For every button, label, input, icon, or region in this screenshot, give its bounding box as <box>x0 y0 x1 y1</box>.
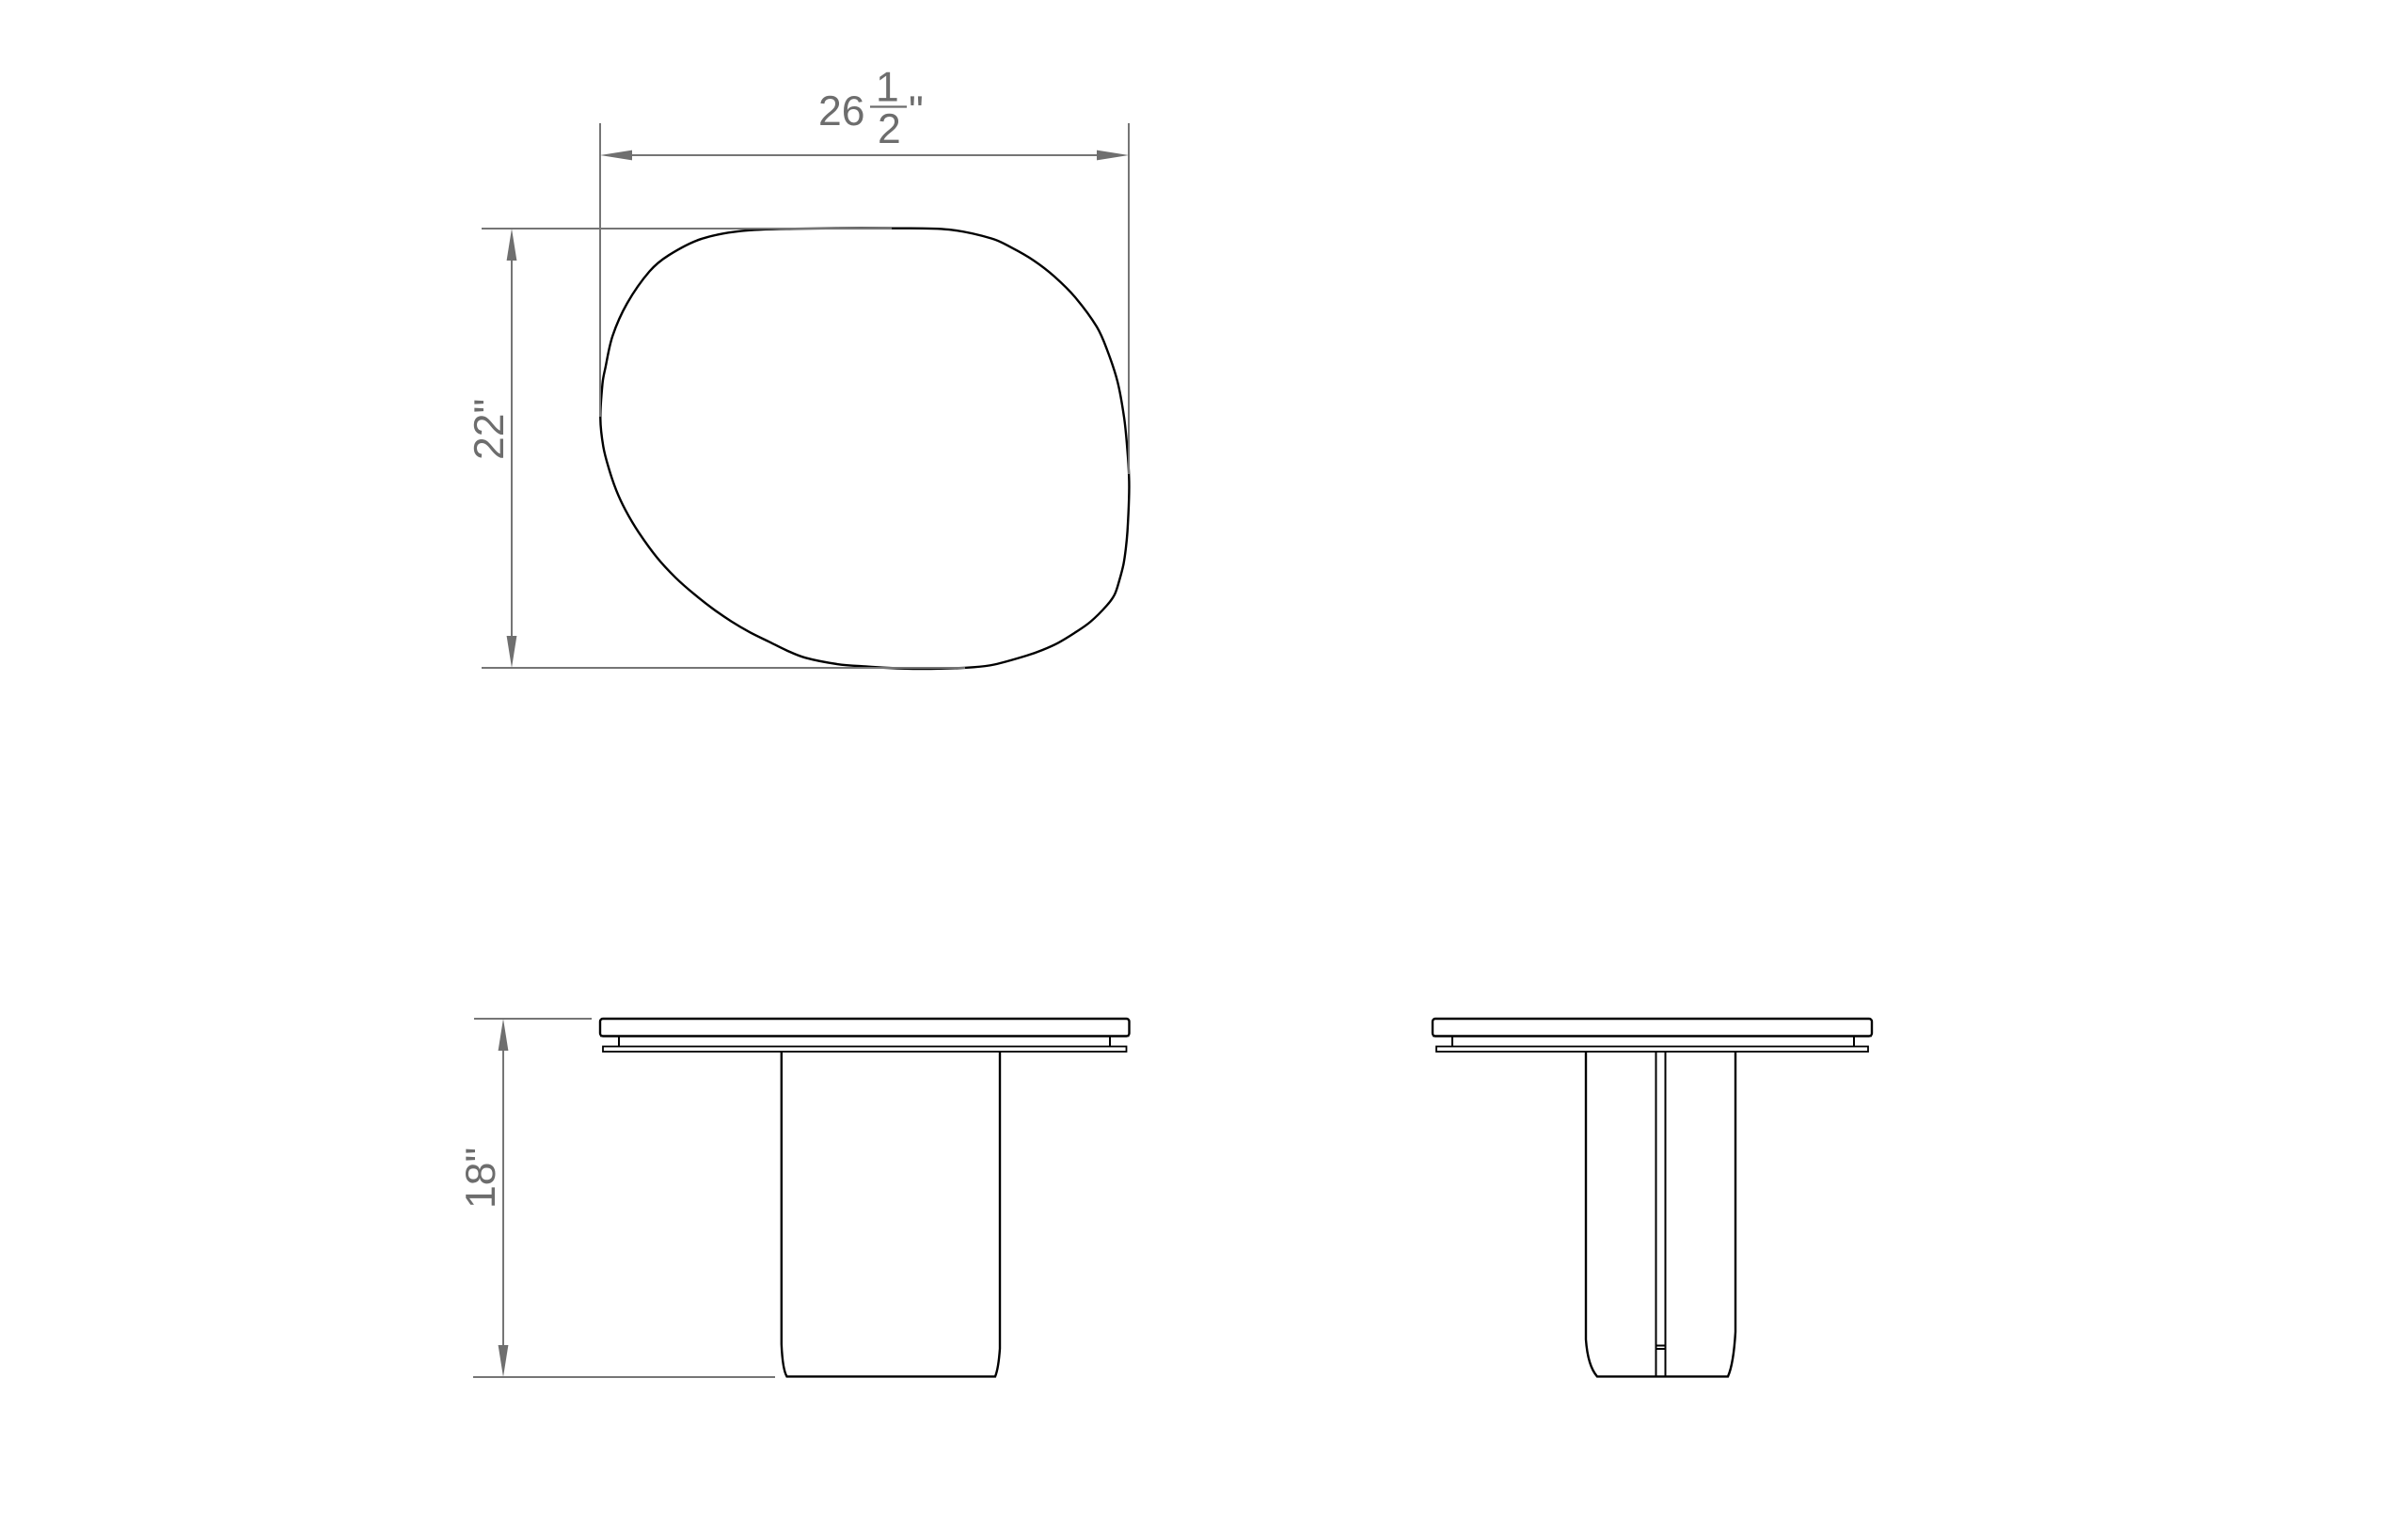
dimension 22" : dimension line <box>511 261 513 636</box>
dimension 22" : bottom arrowhead <box>507 636 517 668</box>
side view pedestal seam upper tick <box>1656 1345 1666 1347</box>
dimension 26 1/2" : right extension line <box>1128 123 1130 474</box>
dimension 22" : top extension line <box>482 228 892 230</box>
svg-text:26: 26 <box>818 88 865 135</box>
dimension 18" : dimension line <box>502 1051 504 1345</box>
side view right support tick <box>1853 1037 1855 1048</box>
dimension 22" : top arrowhead <box>507 229 517 261</box>
side view pedestal outline <box>1586 1052 1735 1376</box>
side view pedestal center seam right line <box>1665 1052 1667 1376</box>
front view left support tick <box>618 1037 620 1048</box>
side view pedestal center seam left line <box>1655 1052 1657 1376</box>
front view pedestal <box>782 1052 1000 1376</box>
front view sub-top plate <box>603 1047 1127 1053</box>
svg-text:18": 18" <box>458 1148 504 1209</box>
dimension 18" : top arrowhead <box>499 1019 509 1051</box>
dimension 26 1/2" : left extension line <box>599 123 601 417</box>
side view tabletop slab <box>1433 1019 1872 1037</box>
svg-text:1: 1 <box>876 65 899 111</box>
dimension 18" : top extension line <box>474 1018 592 1020</box>
front view right support tick <box>1109 1037 1111 1048</box>
side view sub-top plate <box>1436 1047 1868 1053</box>
dimension 26 1/2" : dimension line <box>632 154 1097 156</box>
svg-text:22": 22" <box>467 399 513 460</box>
front view tabletop slab <box>600 1019 1130 1037</box>
dimension 18" : bottom extension line <box>473 1376 775 1378</box>
fraction bar <box>870 105 907 107</box>
side view left support tick <box>1451 1037 1453 1048</box>
dimension 18" : bottom arrowhead <box>499 1345 509 1377</box>
dimension 26 1/2" : left arrowhead <box>600 151 632 161</box>
front view slab bottom edge emphasis <box>600 1036 1130 1038</box>
dimension 26 1/2" : right arrowhead <box>1097 151 1129 161</box>
svg-text:": " <box>909 88 924 135</box>
side view slab bottom edge emphasis <box>1433 1036 1872 1038</box>
svg-text:2: 2 <box>878 106 901 152</box>
dimension 22" : bottom extension line <box>482 667 965 669</box>
tabletop outline (pebble shape), top view <box>600 229 1129 669</box>
side view pedestal seam lower tick <box>1656 1348 1666 1350</box>
